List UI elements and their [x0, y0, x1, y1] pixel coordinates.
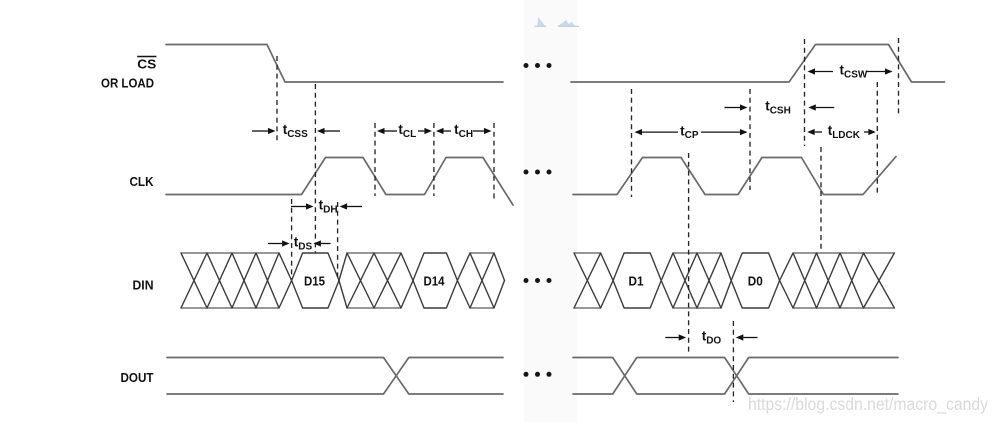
arrow pair tDS [268, 240, 331, 246]
dashed line at last CLK rising edge (tLDCK right) [876, 82, 878, 195]
label CS (overlined) signal name [137, 57, 156, 72]
arrow pair tLDCK [807, 129, 876, 135]
svg-text:tCSS: tCSS [283, 122, 308, 140]
label tCSW [840, 63, 868, 81]
label D0 [748, 275, 763, 289]
label tCSS [283, 122, 308, 140]
svg-text:tCL: tCL [398, 122, 416, 140]
label D14 [424, 275, 445, 289]
label D15 [304, 275, 325, 289]
label tCSH [765, 99, 791, 117]
svg-text:tLDCK: tLDCK [828, 123, 861, 141]
watermark URL text bottom right [748, 394, 988, 415]
arrow pair tCL [377, 128, 432, 134]
dashed line at CLK rising edge (tCL right / tCH left) [433, 123, 435, 196]
svg-text:DOUT: DOUT [121, 370, 154, 385]
dashed line at CS falling edge (tCSS left) [276, 56, 278, 142]
label tCL [398, 122, 416, 140]
svg-text:tDO: tDO [702, 329, 722, 347]
bus DIN data cell D14 [413, 253, 457, 308]
svg-text:D1: D1 [629, 275, 644, 289]
ellipsis break dots DIN row [524, 278, 552, 283]
svg-text:D0: D0 [748, 275, 763, 289]
dashed line at CLK rising edge (tCP right / tCSH left) [749, 89, 751, 190]
bus DIN data cell D0 [731, 253, 779, 308]
ellipsis break dots DOUT row [524, 372, 552, 377]
label tCH [454, 122, 473, 140]
bus DIN right trailing crosshatch [780, 253, 895, 308]
bus DIN data cell D1 [613, 253, 661, 308]
label tDH [319, 198, 338, 216]
dashed line at CS falling edge (tCSW right) [898, 38, 900, 114]
dashed line at CLK falling edge (tCL left) [374, 123, 376, 196]
dashed line at CLK falling edge (tCH right) [493, 123, 495, 200]
bus DIN data cell D15 [292, 253, 339, 308]
label tLDCK [828, 123, 861, 141]
wire CLK right segment (two pulses and final rising edge) [573, 157, 896, 195]
arrow pair tCH [436, 128, 492, 134]
svg-text:D15: D15 [304, 275, 325, 289]
wire CS-OR-LOAD right segment (low, rising pulse, falling, low) [571, 45, 945, 83]
dashed line at DOUT transition (tDO right) [732, 321, 734, 402]
label OR LOAD signal name [101, 76, 154, 91]
arrow pair tCP [635, 129, 748, 135]
svg-text:tCSH: tCSH [765, 99, 791, 117]
dashed line at D15 data-valid start (tDS left) [291, 199, 293, 279]
arrow pair tCSS [252, 128, 340, 134]
svg-text:CLK: CLK [130, 174, 154, 189]
watermark CSDN logo fragment (light blue shapes, top centre) [535, 17, 580, 26]
svg-text:DIN: DIN [133, 278, 154, 293]
label DOUT signal name [121, 370, 154, 385]
label CLK signal name [130, 174, 154, 189]
arrow pair tDH [291, 203, 362, 209]
label DIN signal name [133, 278, 154, 293]
ellipsis break dots CLK row [524, 170, 552, 175]
svg-text:tCH: tCH [454, 122, 473, 140]
dashed line at CS rising edge (tCSH right / tCSW-tLDCK left) [804, 39, 806, 146]
watermark faint vertical band behind break dots [524, 0, 577, 422]
bus DIN right leading crosshatch [574, 253, 613, 308]
svg-text:https://blog.csdn.net/macro_ca: https://blog.csdn.net/macro_candy [748, 394, 988, 415]
dashed line at CLK falling edge for tDO [688, 153, 690, 352]
svg-text:OR LOAD: OR LOAD [101, 76, 154, 91]
bus DIN left trailing crosshatch [457, 253, 504, 308]
bus DOUT left segment with crossover [167, 358, 503, 395]
bus DIN crosshatch between D15 and D14 [339, 253, 413, 308]
bus DOUT right segment with two crossovers [573, 358, 898, 395]
arrow pair tCSH [725, 104, 835, 110]
label tCP [680, 123, 699, 141]
arrow pair tDO [665, 334, 757, 340]
dashed line below tLDCK left [820, 147, 822, 249]
svg-text:tDS: tDS [294, 235, 313, 253]
dashed line at first CLK rising edge (tCSS right / tDS-tDH edge) [314, 84, 316, 253]
arrow pair tCSW [808, 68, 893, 74]
svg-text:tDH: tDH [319, 198, 338, 216]
svg-text:tCSW: tCSW [840, 63, 868, 81]
dashed line at D15 data-valid end (tDH right) [337, 202, 339, 279]
label tDS [294, 235, 313, 253]
label tDO [702, 329, 722, 347]
svg-text:tCP: tCP [680, 123, 699, 141]
bus DIN crosshatch between D1 and D0 [661, 253, 731, 308]
wire CS-OR-LOAD left segment (high, falling edge, low) [166, 45, 503, 83]
svg-text:D14: D14 [424, 275, 445, 289]
label D1 [629, 275, 644, 289]
svg-text:CS: CS [137, 57, 156, 72]
ellipsis break dots CS row [524, 63, 552, 68]
wire CLK left segment (low with two high pulses) [166, 158, 513, 206]
bus DIN left crosshatch (dont-care before D15) [181, 253, 292, 308]
dashed line at CLK rising edge (tCP left) [631, 89, 633, 197]
